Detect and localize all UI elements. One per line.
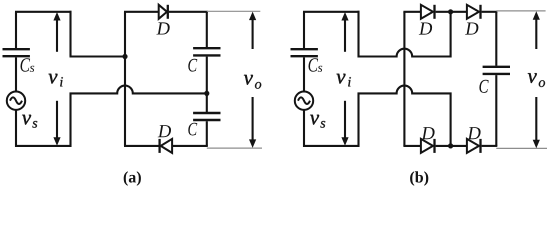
label D top-left (b)	[419, 23, 432, 35]
wire (b) lower mid wire with hop, bottom rail corner to bottom diode junction	[359, 86, 451, 147]
ac source vs (b)	[295, 92, 313, 110]
label C top (a)	[188, 59, 197, 72]
arrow vo down (a)	[249, 97, 256, 148]
node mid junction dot (a) between capacitors	[204, 91, 209, 96]
wire (a) Cs to source vs	[15, 57, 17, 91]
node dot (b) between bottom diodes	[448, 143, 453, 148]
wire (b) bottom diode rail segment 2	[436, 145, 467, 147]
label D bottom-right (b)	[467, 127, 480, 139]
extension line (a) output bottom	[207, 147, 262, 149]
label vi (a)	[49, 74, 63, 87]
wire (a) right corner down from top rail to upper mid wire	[69, 11, 71, 57]
extension line (b) output top	[496, 10, 545, 12]
wire (b) upper mid wire with hop, top rail corner to top diode junction	[359, 11, 451, 57]
wire (a) top diode rail left segment	[124, 11, 159, 13]
wire (b) top rail	[303, 11, 360, 13]
wire (a) bottom rail	[15, 145, 72, 147]
label D bottom (a)	[158, 125, 171, 137]
wire (b) source bottom to bottom rail	[303, 110, 305, 147]
label Cs (b)	[309, 58, 323, 72]
wire (a) top diode rail right segment to output corner	[169, 11, 208, 13]
wire (a) bottom diode rail left segment	[124, 145, 159, 147]
caption (b)	[410, 171, 428, 186]
label Cs (a)	[21, 58, 35, 72]
arrow vi up (b)	[341, 12, 348, 52]
wire (b) left leg upper (top rail to Cs)	[303, 12, 305, 48]
arrow vo up (a)	[249, 12, 256, 49]
wire (b) bottom rail	[303, 145, 360, 147]
arrow vi up (a)	[53, 12, 60, 52]
wire (a) bottom diode rail right segment	[172, 145, 208, 147]
wire (a) bridge vertical from top diode rail to bottom diode rail	[124, 12, 126, 146]
label C (b)	[479, 80, 488, 93]
label D top (a)	[156, 22, 169, 34]
wire (a) upper mid wire to junction node	[70, 55, 126, 57]
wire (a) bottom capacitor to bottom diode rail	[206, 121, 208, 146]
capacitor C bottom (a)	[193, 113, 220, 120]
diode D bottom (a) pointing left	[160, 139, 173, 153]
wire (b) bridge left vertical	[403, 12, 405, 146]
label vs (a)	[22, 115, 37, 128]
label D top-right (b)	[465, 23, 478, 35]
diode D bottom-right (b)	[467, 139, 481, 153]
capacitor Cs (a)	[3, 49, 30, 56]
wire (b) Cs to source vs	[303, 57, 305, 91]
wire (b) bottom diode rail segment 3 to output corner	[482, 145, 498, 147]
diode D bottom-left (b)	[421, 139, 435, 153]
arrow vi down (a)	[53, 101, 60, 146]
capacitor C top (a)	[193, 48, 220, 55]
arrow vo down (b)	[533, 97, 540, 148]
arrow vo up (b)	[533, 11, 540, 49]
wire (b) top diode rail segment 1	[403, 11, 421, 13]
wire (a) lower mid wire with hop over bridge vertical	[71, 86, 207, 147]
diode D top-right (b)	[467, 5, 481, 19]
label vi (b)	[337, 74, 351, 87]
wire (a) between top capacitor and mid node	[206, 57, 208, 94]
wire (b) top diode rail segment 3 to output corner	[482, 11, 498, 13]
wire (b) top diode rail segment 2	[436, 11, 467, 13]
wire (a) output column top (corner to top capacitor)	[206, 12, 208, 47]
wire (a) left leg upper (top rail to Cs top plate)	[15, 12, 17, 48]
capacitor Cs (b)	[291, 49, 318, 56]
circuit (a) voltage-doubler rectifier	[3, 5, 263, 186]
extension line (b) output bottom	[496, 147, 547, 149]
diode D top-left (b)	[421, 5, 435, 19]
wire (b) output column bottom (capacitor to bottom rail)	[495, 75, 497, 146]
capacitor C (b)	[483, 67, 510, 74]
node dot (b) between top diodes	[448, 9, 453, 14]
wire (b) output column top (corner to capacitor C)	[495, 12, 497, 66]
wire (a) mid node to bottom capacitor	[206, 93, 208, 112]
label vo (b)	[528, 73, 545, 87]
ac source vs (a)	[7, 92, 25, 110]
wire (a) source bottom to bottom rail	[15, 110, 17, 147]
label vs (b)	[310, 115, 325, 128]
label D bottom-left (b)	[421, 127, 434, 139]
wire (a) top rail from Cs to left corner	[15, 11, 72, 13]
extension line (a) output top	[207, 10, 260, 12]
diode D top (a)	[159, 5, 168, 19]
arrow vi down (b)	[341, 101, 348, 146]
caption (a)	[124, 171, 141, 186]
label C bottom (a)	[188, 123, 197, 136]
wire (b) bottom diode rail segment 1	[403, 145, 421, 147]
node junction dot (a) at bridge vertical / upper mid	[122, 54, 127, 59]
circuit (b) full-bridge rectifier	[291, 5, 548, 186]
label vo (a)	[244, 75, 261, 89]
